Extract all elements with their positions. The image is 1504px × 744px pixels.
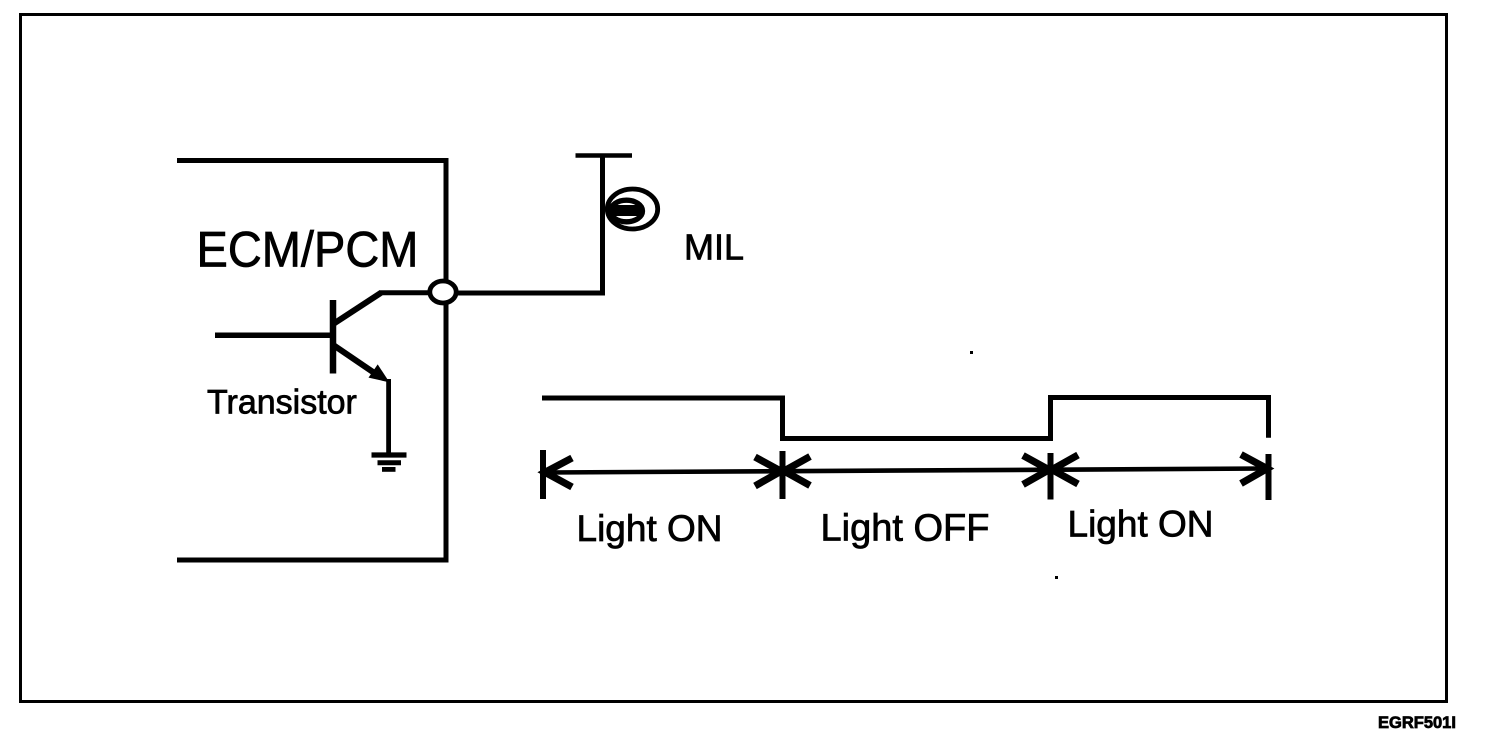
arrowhead right at tick3: [1023, 456, 1049, 485]
lamp MIL bulb: [607, 189, 657, 229]
arrowhead left at tick3: [1052, 455, 1078, 484]
arrowhead left at tick1: [545, 458, 572, 487]
tick 3: [1048, 453, 1054, 500]
speck 2: [1055, 576, 1058, 579]
svg-text:MIL: MIL: [684, 226, 744, 267]
wire base (transistor base lead): [215, 332, 333, 338]
wire emitter to ground: [386, 379, 391, 453]
arrowhead right at tick4: [1241, 455, 1267, 484]
wire collector to node: [379, 290, 432, 295]
dimension arrow line: [545, 469, 1268, 473]
power terminal bar: [576, 153, 633, 158]
svg-text:Light ON: Light ON: [577, 508, 723, 549]
tick 1: [540, 450, 546, 499]
ECM/PCM box outline: [177, 161, 446, 561]
transistor Q1: [333, 293, 390, 383]
speck 1: [970, 351, 973, 354]
svg-text:EGRF501I: EGRF501I: [1378, 714, 1456, 732]
svg-text:Light OFF: Light OFF: [821, 508, 990, 550]
arrowhead left at tick2: [784, 457, 810, 486]
node junction circle: [430, 281, 456, 303]
arrowhead right at tick2: [755, 457, 781, 486]
ground: [372, 455, 407, 469]
wire lamp vertical: [600, 155, 605, 293]
svg-text:ECM/PCM: ECM/PCM: [197, 222, 419, 278]
svg-text:Transistor: Transistor: [207, 383, 357, 421]
tick 2: [780, 451, 786, 499]
wire node to lamp: [454, 291, 605, 296]
waveform trace: [542, 398, 1269, 439]
tick 4: [1266, 454, 1272, 500]
svg-text:Light ON: Light ON: [1068, 504, 1214, 545]
